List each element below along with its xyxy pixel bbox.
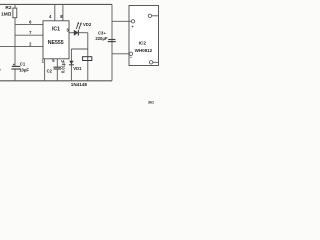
wire IC2 output top: [152, 15, 159, 17]
terminal plus input: [131, 20, 134, 23]
svg-text:WH0812: WH0812: [135, 48, 153, 53]
wire IC2 minus input: [112, 53, 129, 55]
wire IC2 output bottom: [153, 61, 159, 63]
wire VD1 top horizontal: [71, 48, 87, 50]
wire pin 7: [15, 34, 43, 36]
svg-text:C2: C2: [47, 69, 53, 74]
wire R2 top stem: [14, 4, 16, 8]
wire bottom ground rail: [0, 80, 112, 82]
wire pin 3 to LED: [69, 32, 74, 34]
svg-text:VD2: VD2: [83, 22, 92, 27]
resistor R2: [13, 8, 17, 18]
wire C1 stem top: [14, 46, 16, 66]
wire pin 2: [0, 45, 43, 47]
capacitor C2: [54, 67, 62, 69]
svg-text:NE555: NE555: [48, 40, 64, 46]
svg-text:VD1: VD1: [73, 66, 82, 71]
svg-text:10μF: 10μF: [19, 67, 29, 72]
resistor R1 box on node X line: [83, 57, 92, 61]
svg-text:220μF: 220μF: [95, 36, 108, 41]
wire C1 stem bottom: [14, 69, 16, 81]
wire pin 5 / C2 stem: [56, 59, 58, 67]
svg-text:0.01μF: 0.01μF: [61, 59, 66, 73]
svg-text:361: 361: [148, 100, 154, 104]
terminal output top: [148, 14, 151, 17]
svg-text:R2: R2: [5, 5, 11, 11]
wire R2 bottom to node A: [14, 18, 16, 47]
terminal minus input: [129, 52, 132, 55]
IC2 WH0812 box: [129, 6, 159, 66]
capacitor C1: [11, 66, 20, 69]
wire top supply rail: [0, 3, 112, 5]
diode VD1 1N4148: [69, 61, 73, 65]
terminal output bottom: [149, 61, 152, 64]
capacitor C3: [108, 40, 116, 42]
wire right rail down from top to C3/IC2 column: [111, 4, 113, 80]
svg-text:1N4148: 1N4148: [71, 82, 88, 87]
LED VD2: [74, 30, 78, 35]
wire pin 8: [62, 4, 64, 20]
wire pin 1 to ground: [44, 59, 46, 81]
svg-text:IC2: IC2: [139, 40, 147, 46]
wire node X down through R1 to ground: [87, 33, 89, 81]
wire VD1 vertical: [70, 49, 72, 81]
op-amp/timer IC1 NE555 box: [43, 21, 69, 59]
wire LED cathode to node X: [78, 32, 88, 34]
wire pin 6: [15, 24, 43, 26]
svg-text:C1: C1: [20, 61, 26, 66]
wire pin 4: [54, 4, 56, 20]
wire C2 bottom stem: [56, 69, 58, 81]
wire IC2 plus input: [112, 20, 131, 22]
svg-text:IC1: IC1: [52, 26, 60, 32]
svg-text:1MΩ: 1MΩ: [1, 12, 12, 18]
